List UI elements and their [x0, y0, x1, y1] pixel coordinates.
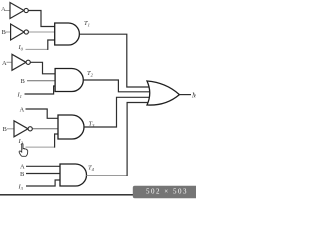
AND gate G3 (T3) — [58, 115, 84, 139]
svg-text:B: B — [21, 78, 26, 85]
svg-text:B: B — [3, 126, 8, 133]
wire inverter U2 output to AND G1 — [29, 31, 56, 33]
wire inverter U4 output to AND G3 — [32, 128, 58, 130]
wire A to AND G3 — [26, 109, 59, 118]
wire I2 to AND G3 — [26, 146, 55, 148]
mouse cursor (hand pointer) — [19, 144, 28, 157]
AND gate G1 (T1) — [55, 23, 80, 45]
wire I3 to AND G4 — [26, 180, 60, 186]
wire A to AND G4 — [26, 165, 60, 167]
inverter U4 (B) — [14, 121, 28, 137]
wire inverter U1 output — [28, 11, 54, 27]
inverter U1 (A) — [10, 3, 24, 19]
wire T1 output to OR input 1 — [79, 34, 150, 87]
svg-text:A: A — [20, 106, 25, 113]
wire T2 output to OR input 2 — [83, 80, 150, 92]
wire T3 output to OR input 3 — [84, 97, 150, 127]
svg-text:B: B — [20, 171, 25, 178]
wire I0 to AND G1 — [26, 48, 48, 50]
svg-text:A: A — [1, 6, 6, 13]
svg-text:M: M — [191, 91, 196, 99]
inverter U3 (A) — [12, 54, 26, 70]
bottom border line — [0, 194, 196, 196]
wire B to AND G4 — [26, 173, 60, 175]
AND gate G4 (T4) — [60, 164, 87, 186]
wire B to inverter U4 — [7, 128, 14, 130]
AND gate G2 (T2) — [55, 69, 83, 92]
inverter U2 (B) — [11, 24, 25, 40]
svg-text:502 × 503: 502 × 503 — [146, 187, 188, 195]
OR gate G5 (output) — [147, 81, 179, 105]
wire T4 output to OR input 4 — [87, 175, 127, 177]
wire B to inverter U2 — [6, 31, 11, 33]
wire I1 to AND G2 — [25, 86, 56, 94]
wire A to inverter U3 — [7, 61, 13, 63]
wire inverter U3 output to AND G2 — [30, 62, 55, 74]
wire OR output — [179, 94, 191, 96]
wire B to AND G2 — [27, 80, 55, 82]
svg-text:A: A — [20, 164, 25, 171]
dimension badge 502x503 — [133, 186, 196, 198]
svg-text:A: A — [2, 60, 7, 67]
wire A to inverter U1 — [5, 10, 10, 12]
